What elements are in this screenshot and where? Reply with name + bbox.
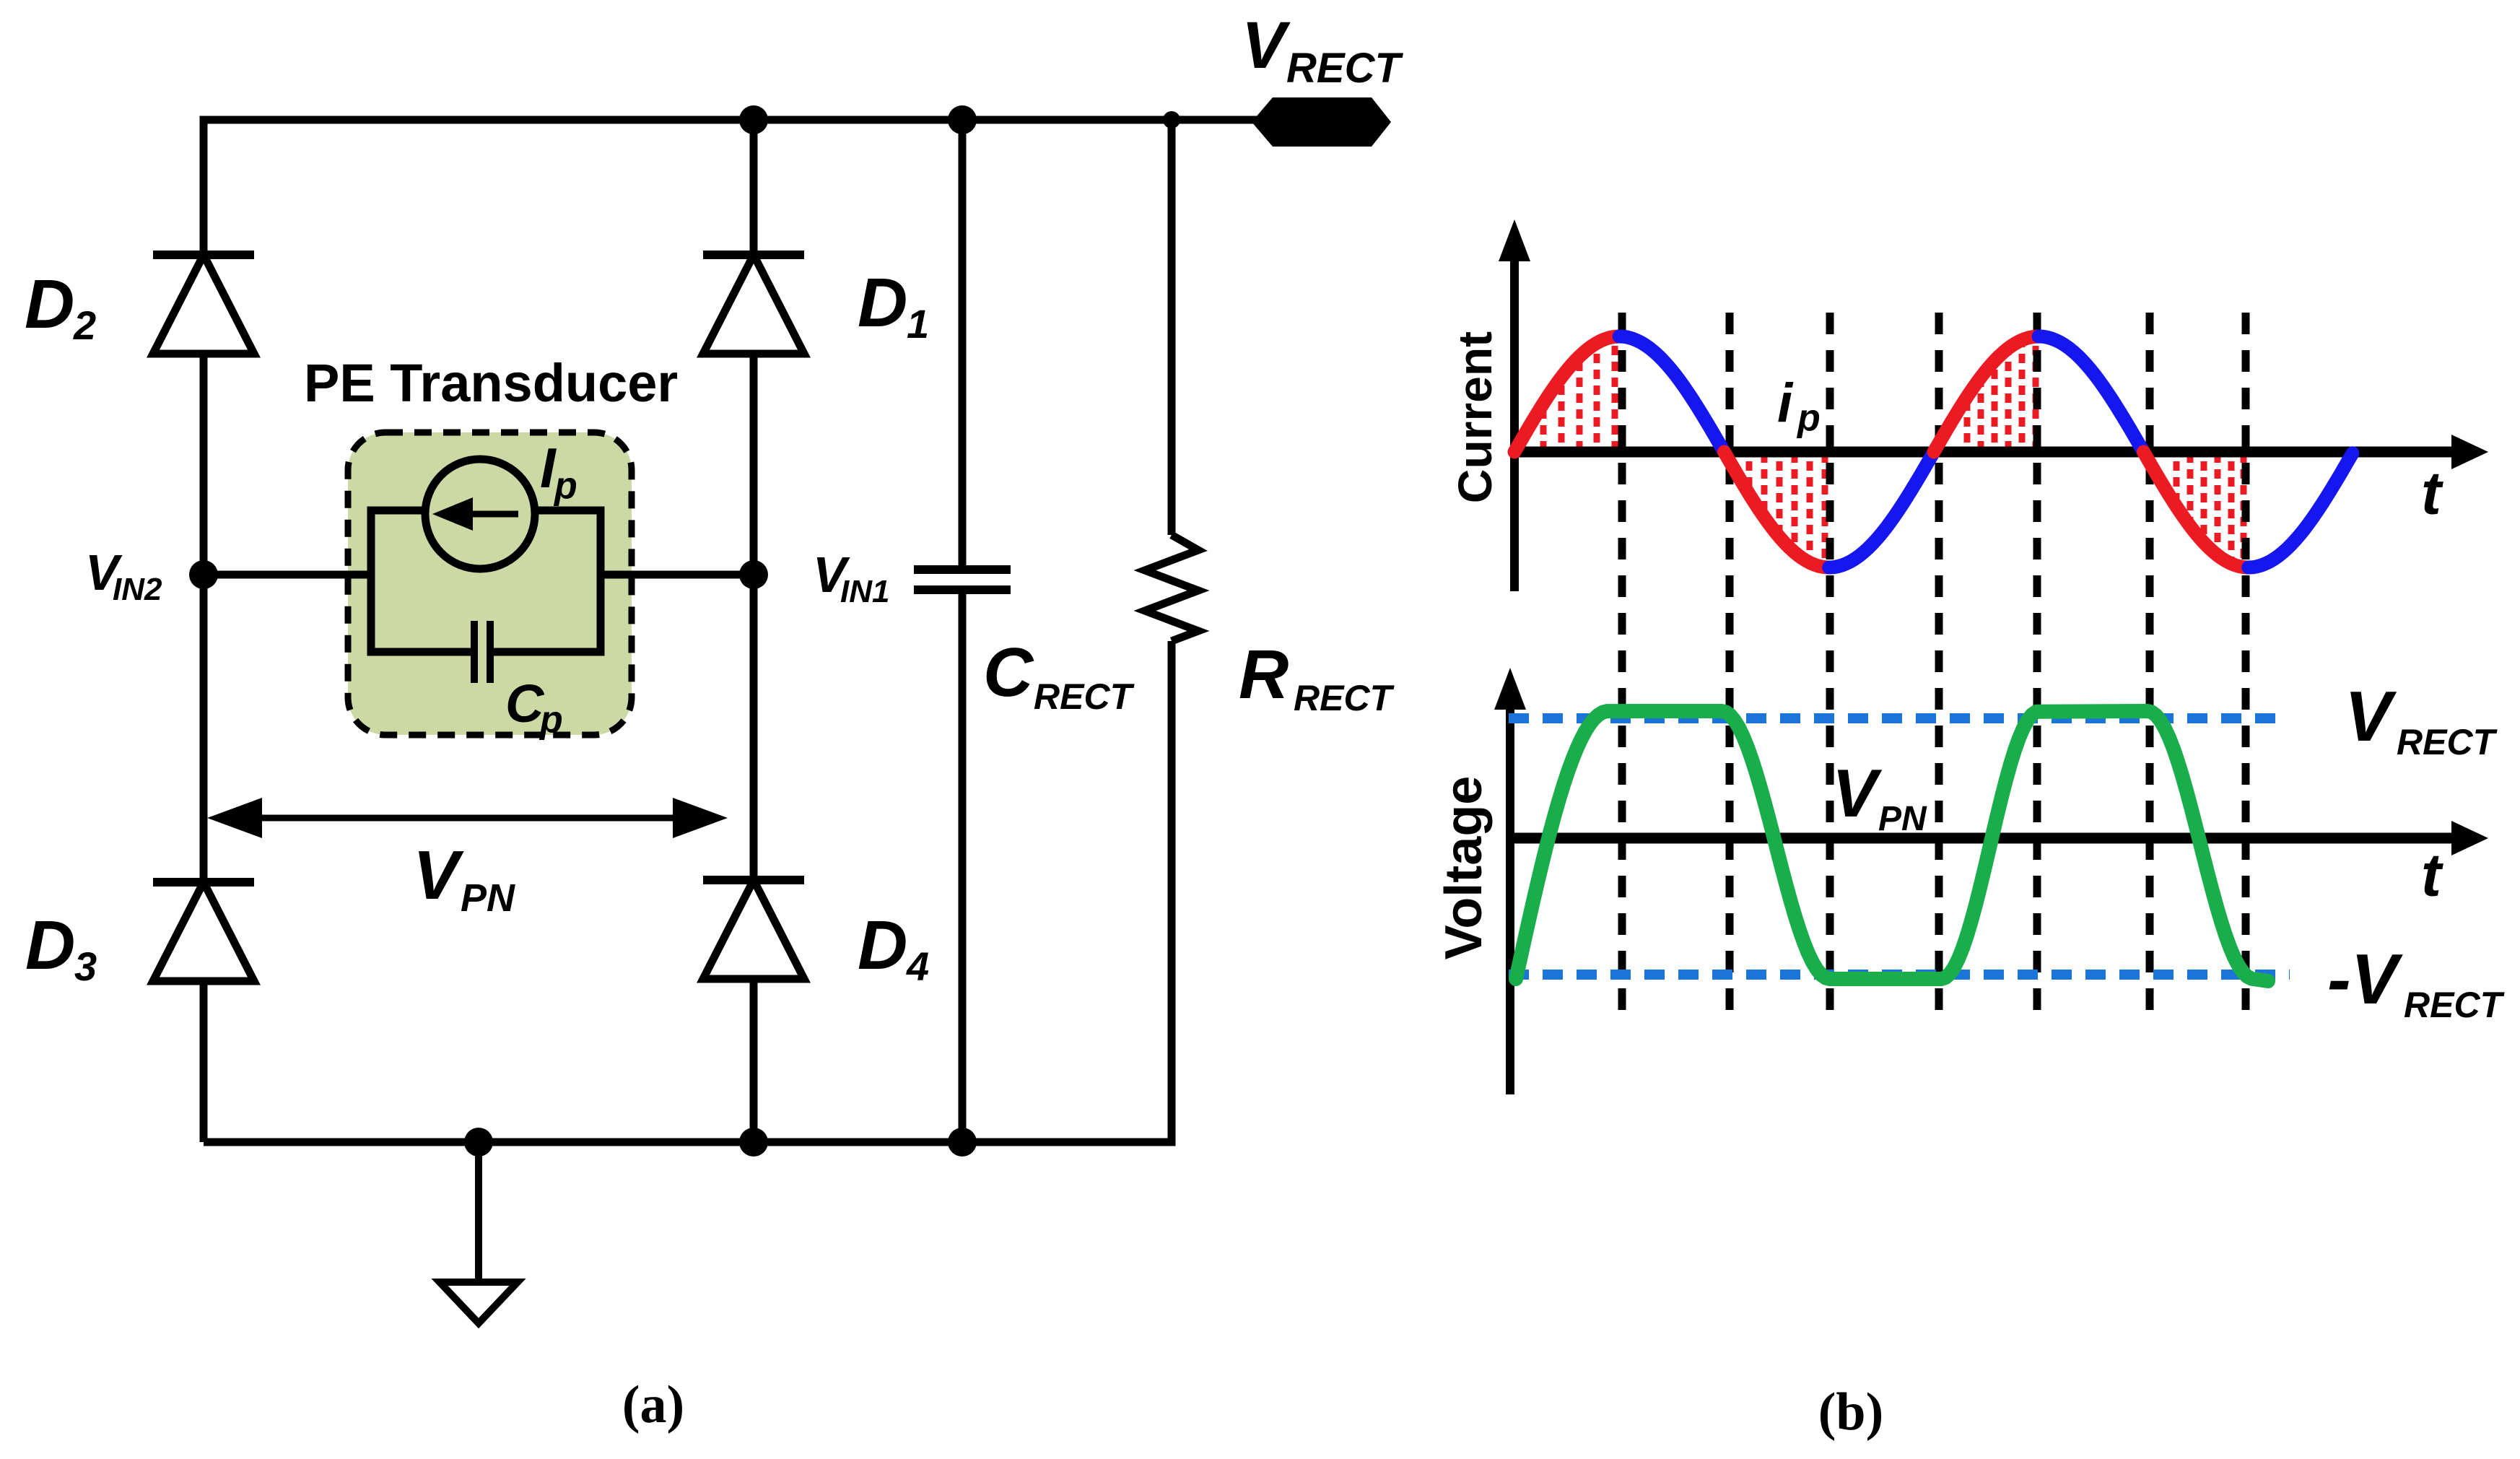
VRECT terminal hexagon	[1252, 97, 1391, 147]
svg-text:PE Transducer: PE Transducer	[304, 353, 678, 413]
diode D4	[703, 876, 804, 884]
wire: transducer to VIN1 node	[601, 571, 754, 579]
capacitor CRECT	[959, 120, 967, 565]
svg-text:-V: -V	[2327, 939, 2404, 1019]
wire: bottom rail	[204, 1138, 1176, 1146]
node VIN2	[189, 560, 218, 589]
diode D3	[153, 878, 254, 887]
current plot y-axis	[1510, 260, 1519, 591]
blue dashed -VRECT level line	[1509, 970, 2290, 980]
ground	[475, 1142, 482, 1281]
transducer inner loop wires	[367, 507, 375, 656]
svg-text:RECT: RECT	[1034, 676, 1135, 717]
svg-text:t: t	[2421, 841, 2443, 909]
wire: VIN2 node to transducer	[204, 571, 371, 579]
node: top rail / RRECT junction	[1163, 111, 1180, 129]
svg-text:(b): (b)	[1818, 1382, 1883, 1442]
svg-text:C: C	[983, 634, 1034, 711]
node VIN1	[739, 560, 768, 589]
diode D1	[703, 251, 804, 259]
resistor RRECT	[1168, 120, 1176, 535]
PE transducer dashed box	[348, 432, 632, 735]
node: bottom rail / ground junction	[464, 1128, 493, 1157]
wire: right column mid (D1 to VIN1 node to D4)	[750, 354, 758, 880]
svg-text:Current: Current	[1448, 331, 1501, 503]
red hatch dotted lines (current plot)	[1540, 408, 1547, 450]
svg-text:p: p	[539, 699, 563, 741]
svg-text:p: p	[1796, 397, 1821, 439]
svg-text:4: 4	[906, 944, 929, 989]
svg-text:PN: PN	[1878, 800, 1927, 838]
svg-text:3: 3	[74, 944, 97, 989]
svg-text:RECT: RECT	[1286, 45, 1403, 92]
svg-text:(a): (a)	[622, 1375, 684, 1434]
node: bottom rail / D4 junction	[739, 1128, 768, 1157]
VPN measurement arrow	[261, 815, 674, 822]
svg-text:t: t	[2421, 459, 2443, 527]
svg-text:D: D	[858, 907, 907, 984]
voltage plot y-axis	[1506, 708, 1514, 1094]
node: bottom rail / CRECT junction	[948, 1128, 977, 1157]
svg-text:i: i	[1777, 373, 1794, 434]
svg-text:D: D	[25, 907, 75, 984]
svg-text:Voltage: Voltage	[1435, 776, 1493, 960]
blue dashed VRECT level line	[1509, 713, 2285, 723]
green VPN waveform	[1516, 711, 2268, 981]
svg-text:IN1: IN1	[840, 574, 889, 609]
wire: left column mid (D2 to VIN2 node to D3)	[200, 354, 208, 882]
svg-text:D: D	[858, 264, 907, 341]
svg-text:V: V	[413, 837, 464, 914]
node: top rail / D1 junction	[739, 105, 768, 134]
wire: right column top (D1 to top rail)	[750, 120, 758, 255]
wire: left column bottom (D3 to bottom rail)	[200, 981, 208, 1142]
voltage plot x-axis	[1510, 833, 2454, 844]
svg-text:1: 1	[907, 301, 929, 347]
diode D2	[153, 251, 254, 259]
svg-text:R: R	[1239, 636, 1289, 713]
svg-text:RECT: RECT	[2397, 722, 2498, 762]
capacitor Cp plates	[471, 621, 478, 683]
svg-text:RECT: RECT	[2404, 985, 2506, 1025]
wire: right column bottom (D4 to bottom rail)	[750, 979, 758, 1142]
current source Ip circle	[425, 459, 535, 569]
black dashed vertical time-marker lines	[1618, 313, 1626, 1011]
current plot x-axis	[1514, 447, 2454, 458]
svg-text:V: V	[2345, 676, 2397, 756]
node: top rail / CRECT junction	[948, 105, 977, 134]
sine curve ip (red/blue segments)	[1514, 336, 1619, 452]
svg-text:RECT: RECT	[1294, 678, 1395, 718]
svg-text:D: D	[25, 266, 74, 343]
svg-text:2: 2	[73, 302, 96, 348]
current source arrow	[468, 511, 518, 518]
svg-text:IN2: IN2	[113, 572, 162, 607]
wire to VRECT terminal	[1172, 116, 1260, 124]
svg-text:V: V	[1242, 9, 1291, 82]
wire: top rail	[204, 116, 1256, 124]
svg-text:C: C	[505, 674, 545, 733]
wire: left column top (D2 anode to top rail)	[200, 116, 208, 256]
svg-text:p: p	[553, 465, 577, 507]
svg-text:V: V	[1832, 755, 1883, 831]
svg-text:PN: PN	[461, 876, 515, 920]
